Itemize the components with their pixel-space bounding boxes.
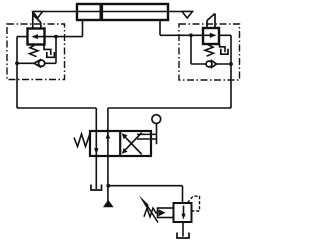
RV spring	[144, 208, 158, 217]
RV spring box	[158, 208, 174, 218]
wire main line right	[108, 108, 231, 131]
RV spring box arrow	[159, 209, 166, 216]
piston	[100, 5, 104, 20]
DV straight path P-B	[107, 131, 109, 156]
RV pilot line	[188, 196, 200, 211]
spring V2	[205, 44, 214, 56]
wire V1 inlet	[45, 36, 83, 38]
DV crossed path 2	[123, 133, 142, 152]
DV straight path A-T	[95, 131, 97, 156]
sequence valve V2 body	[203, 28, 219, 44]
wire V1 pilot branch	[55, 37, 57, 64]
drain tank V1	[47, 52, 55, 57]
enclosure box V2 (right sequence valve assembly)	[179, 24, 240, 80]
directional valve DV body	[90, 131, 151, 156]
spring V1	[30, 45, 39, 57]
wire cylinder right port	[159, 20, 161, 35]
directional valve DV divider	[119, 131, 121, 156]
drain neck V2	[207, 14, 215, 29]
wire main line left	[17, 108, 96, 131]
wire V2 inlet	[160, 34, 203, 36]
wire check valve line left	[17, 62, 56, 64]
junction V1 check	[15, 61, 19, 65]
check valve C2 ball	[206, 61, 212, 67]
wire cylinder left port	[82, 20, 84, 37]
enclosure box V1 (left sequence valve assembly)	[7, 24, 65, 80]
junction V2 outlet	[229, 62, 233, 66]
sequence valve V1 body	[28, 29, 45, 45]
tank T1	[91, 185, 102, 191]
DV crossed path 1	[123, 135, 142, 154]
drain tank V2	[221, 49, 228, 54]
check valve C1 ball	[39, 60, 45, 66]
drain line V1	[44, 45, 51, 56]
DV lever prongs	[137, 134, 157, 139]
flow arrow V2	[203, 34, 214, 36]
drain line V2	[220, 44, 226, 52]
junction V1 inlet	[54, 35, 58, 39]
RV flow arrow	[183, 206, 185, 215]
DV lever knob	[152, 115, 161, 124]
drain neck V1	[33, 12, 41, 29]
wire V2 pilot branch	[190, 35, 192, 64]
wire RV tank	[182, 222, 184, 237]
wire V1 outlet	[17, 37, 28, 108]
flow arrow V1	[33, 36, 45, 38]
RV adjust arrow	[148, 206, 159, 222]
tank vent triangle left	[33, 12, 43, 19]
tank vent triangle right	[182, 12, 193, 19]
relief valve RV body	[174, 203, 192, 222]
check valve C2 seat	[211, 60, 217, 68]
wire DV tank port	[95, 156, 97, 189]
pump source	[104, 201, 113, 207]
DV spring	[74, 134, 90, 147]
tank T2	[177, 233, 189, 239]
wire V2 outlet	[219, 35, 231, 108]
wire check valve line right	[191, 63, 231, 65]
wire DV pressure port	[107, 156, 109, 201]
DV lever shaft	[156, 123, 158, 144]
piston rod	[33, 11, 193, 13]
cylinder barrel	[77, 4, 168, 20]
junction V2 inlet	[189, 33, 193, 37]
junction pump branch	[106, 184, 110, 188]
check valve C1 seat	[34, 59, 41, 67]
wire relief branch	[108, 186, 182, 203]
